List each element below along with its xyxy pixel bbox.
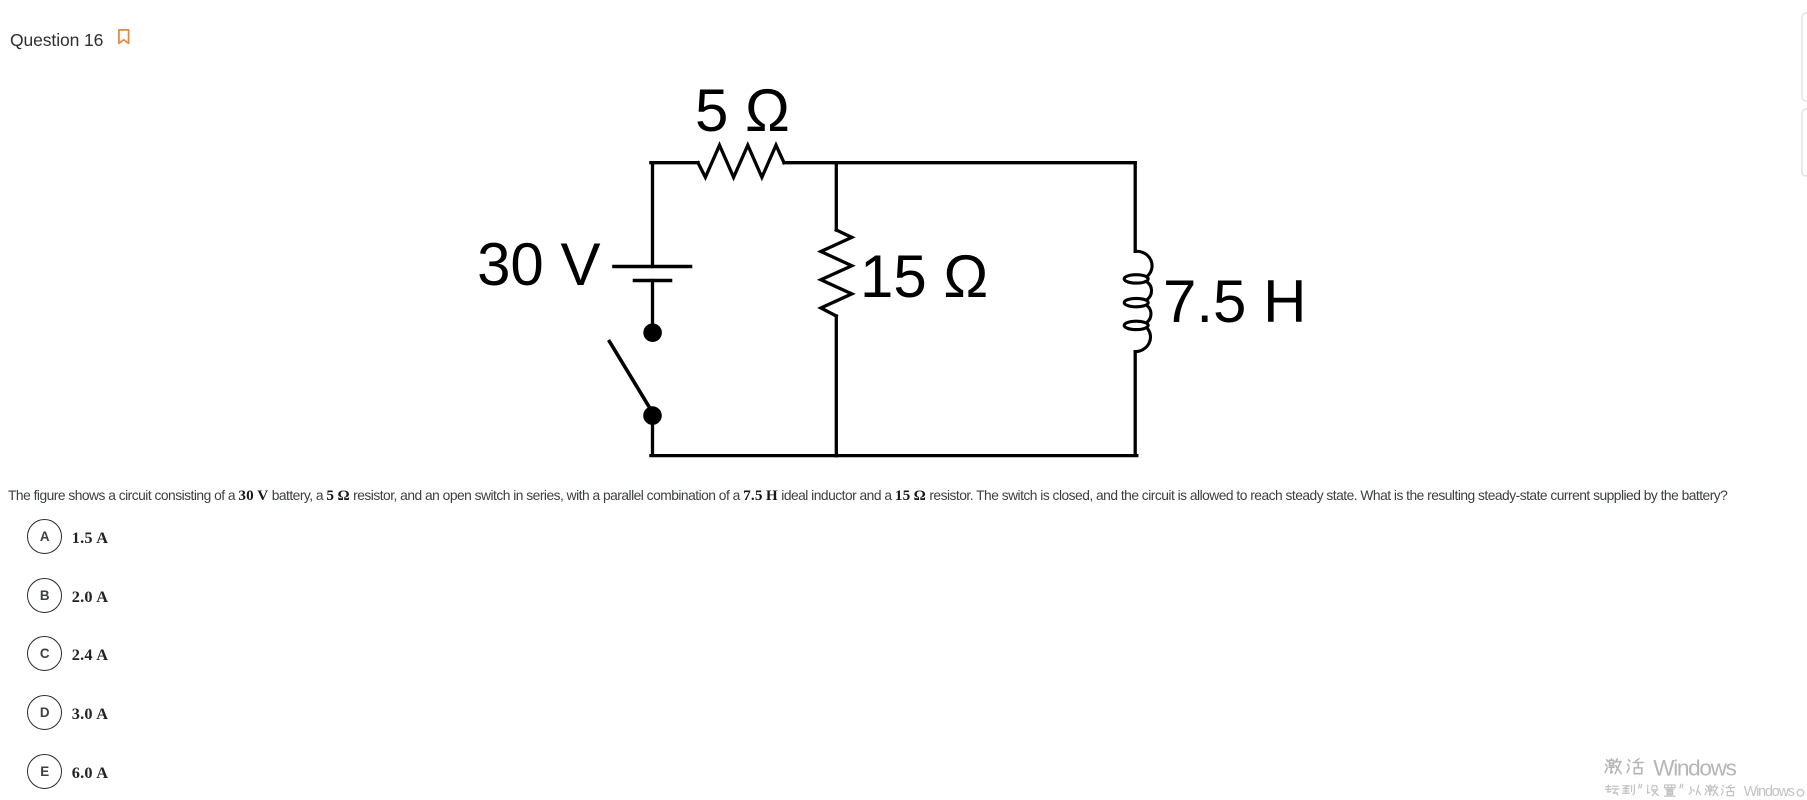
wire: right side from inductor to bottom-right corner <box>836 352 1137 456</box>
wire: switch top dot up to battery negative plate <box>651 281 654 333</box>
option D <box>27 695 108 730</box>
wire: top side from R1 to top-right corner <box>784 161 1135 164</box>
svg-text:Windows: Windows <box>1653 755 1736 780</box>
wire: top-left from battery positive up and right to R1 <box>651 163 698 267</box>
option A <box>27 519 108 554</box>
resistor R1 (5 ohm) zigzag <box>698 145 784 177</box>
right edge panels <box>1800 12 1807 182</box>
resistor R2 (15 ohm) zigzag <box>821 230 852 316</box>
option E <box>27 754 108 789</box>
switch S1 blade (open) <box>610 342 650 408</box>
question header <box>10 30 103 51</box>
inductor L1 (7.5 H) coil <box>1124 251 1152 351</box>
wire: right side down to inductor <box>1134 163 1137 252</box>
battery B1 negative (short) plate <box>635 279 671 283</box>
bookmark icon <box>118 29 130 45</box>
switch S1 bottom contact dot <box>643 406 662 425</box>
wire: middle branch from R2 down to bottom junction <box>835 316 838 456</box>
wire: bottom side from middle junction to bottom-left corner and up to switch <box>651 416 836 456</box>
option C <box>27 636 108 671</box>
svg-text:Windows: Windows <box>1744 784 1795 800</box>
battery B1 positive (long) plate <box>614 265 691 269</box>
node: top junction of middle branch <box>835 163 838 230</box>
question text <box>8 487 1727 505</box>
switch S1 top contact dot <box>643 323 662 342</box>
option B <box>27 578 108 613</box>
